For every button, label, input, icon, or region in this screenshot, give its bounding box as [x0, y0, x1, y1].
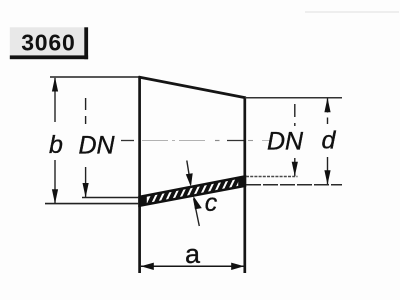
DN left arrow down — [83, 183, 89, 198]
wall band dark left tip — [139, 195, 147, 206]
dimension a line — [141, 265, 244, 267]
c lower arrow — [193, 196, 202, 209]
centerline small dash — [215, 140, 220, 142]
faint scan line top right — [305, 11, 399, 13]
dimension d line — [327, 99, 329, 185]
b arrow down — [52, 189, 58, 204]
centerline dark segment right — [227, 140, 244, 142]
centerline faint middle — [142, 140, 207, 142]
svg-text:a: a — [185, 239, 201, 269]
c upper leader — [187, 161, 191, 185]
DN right dimension line — [294, 158, 296, 176]
wall band dark right tip — [238, 176, 245, 187]
DN left top dash — [85, 98, 87, 124]
b top extension line — [50, 76, 139, 78]
title box 3060 — [10, 27, 88, 59]
a arrow left — [141, 263, 154, 270]
reducer body right edge / a extension — [243, 97, 246, 274]
DN right arrow down — [292, 162, 298, 177]
DN left extension line — [82, 197, 139, 199]
wall hatch — [146, 172, 260, 210]
svg-text:b: b — [49, 131, 63, 159]
DN right top dash — [294, 104, 296, 126]
dimension b line — [54, 78, 56, 203]
svg-text:c: c — [205, 189, 218, 217]
d top extension line — [245, 97, 342, 99]
reducer top edge — [139, 77, 246, 98]
a arrow right — [231, 263, 244, 270]
svg-text:3060: 3060 — [21, 29, 75, 55]
centerline dark segment left — [121, 140, 134, 142]
d arrow down — [324, 170, 330, 185]
DN right extension line — [246, 176, 298, 178]
reducer body left edge / a extension — [138, 76, 141, 273]
b bottom extension line — [45, 203, 139, 205]
c upper arrow — [186, 173, 193, 187]
b arrow up — [52, 77, 58, 92]
svg-text:DN: DN — [78, 132, 115, 160]
wall section band — [140, 176, 246, 205]
c lower leader — [194, 199, 200, 227]
svg-text:DN: DN — [267, 127, 304, 155]
d bottom extension line — [246, 184, 342, 186]
centerline faint right tail — [248, 140, 253, 142]
DN left dimension line — [85, 167, 87, 197]
d arrow up — [324, 98, 330, 113]
svg-text:d: d — [322, 127, 337, 155]
